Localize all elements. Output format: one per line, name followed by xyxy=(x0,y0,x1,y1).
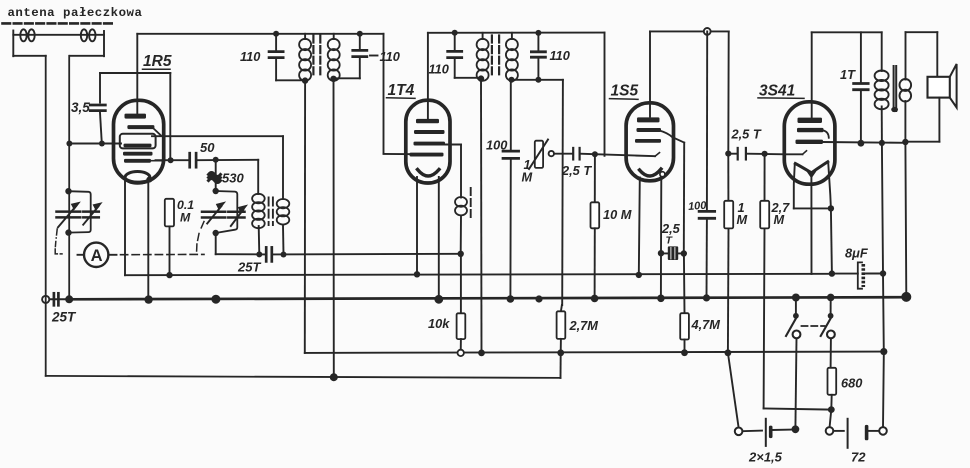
svg-text:3,5: 3,5 xyxy=(71,100,90,115)
svg-text:50: 50 xyxy=(200,140,215,155)
svg-text:1T: 1T xyxy=(840,67,856,82)
svg-text:M: M xyxy=(180,211,191,225)
svg-text:2,7M: 2,7M xyxy=(569,318,599,333)
svg-text:25T: 25T xyxy=(237,260,261,275)
svg-text:25T: 25T xyxy=(51,310,77,325)
svg-text:1S5: 1S5 xyxy=(611,83,639,100)
svg-text:3S41: 3S41 xyxy=(759,83,795,100)
svg-text:72: 72 xyxy=(851,450,866,465)
svg-text:M: M xyxy=(774,212,785,227)
svg-text:M: M xyxy=(522,170,533,185)
svg-text:M: M xyxy=(737,212,748,227)
svg-text:110: 110 xyxy=(550,48,570,63)
svg-text:1T4: 1T4 xyxy=(388,82,415,99)
svg-text:antena pałeczkowa: antena pałeczkowa xyxy=(8,6,143,20)
svg-text:530: 530 xyxy=(222,171,244,186)
svg-text:10 M: 10 M xyxy=(603,207,632,222)
svg-text:1R5: 1R5 xyxy=(143,53,172,70)
svg-text:2,5 T: 2,5 T xyxy=(731,127,762,142)
svg-text:2×1,5: 2×1,5 xyxy=(748,450,783,465)
svg-text:10k: 10k xyxy=(428,316,450,331)
svg-text:2,5 T: 2,5 T xyxy=(561,163,592,178)
svg-text:680: 680 xyxy=(841,376,862,391)
svg-text:A: A xyxy=(91,247,103,265)
svg-text:4,7M: 4,7M xyxy=(691,317,721,332)
svg-text:110: 110 xyxy=(429,62,449,77)
svg-text:100: 100 xyxy=(486,138,507,153)
svg-text:110: 110 xyxy=(240,49,260,64)
svg-text:8μF: 8μF xyxy=(845,246,869,261)
svg-text:100: 100 xyxy=(688,200,708,213)
